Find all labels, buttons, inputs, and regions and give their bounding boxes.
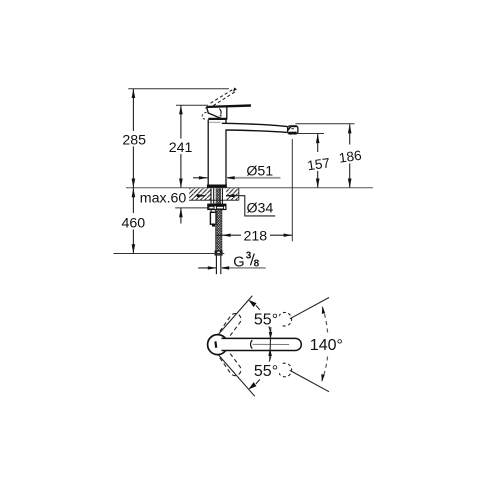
dimension 241 line [180,105,182,188]
solid spout top view [222,338,302,350]
spout centerline [253,343,289,345]
mounting stud and sliding block [210,210,212,213]
140deg tangent line bottom [290,370,329,391]
braided hose upper [216,188,220,204]
cartridge housing [207,107,227,119]
55deg arc arrow bottom [248,382,256,389]
dimension 186 line [349,124,351,188]
svg-text:Ø51: Ø51 [246,164,273,180]
radial extension line -55 [215,350,255,396]
swivel angle arc line through spout [270,327,271,360]
spout [222,123,288,132]
svg-text:G: G [233,254,244,270]
dashed handle alternate position [202,112,207,119]
label 55 bottom [253,362,279,377]
label backgrounds [120,131,363,243]
base circle [208,335,228,355]
186 reference line from spout top [295,123,354,125]
svg-text:55°: 55° [254,312,278,329]
svg-text:157: 157 [306,155,331,173]
dashed spout tip cap bottom [279,363,292,377]
faucet body column [209,121,221,123]
max60 arrow below [180,208,182,224]
dashed handle top position [216,314,241,338]
outlet vertical extension line [291,139,293,241]
raised lever tip [233,88,237,92]
dashed handle bottom position [216,352,241,376]
svg-text:3: 3 [246,250,252,261]
counter right edge [238,188,240,201]
faucet base on deck [207,185,227,188]
counter/deck top line [126,187,373,189]
dimension 157 line [317,134,319,188]
svg-text:218: 218 [243,229,267,245]
braided flexible hose [216,210,222,251]
svg-text:8: 8 [254,259,260,270]
threaded shank through counter [210,188,212,204]
hose end fitting [215,250,223,255]
spout outlet cap [288,126,298,134]
dimension Ø34 [197,195,206,197]
55deg arc arrow top [248,300,256,307]
dimension G3/8 [198,267,216,269]
counter hatch right [226,188,239,200]
max60 lower extension line [175,207,208,209]
lever rest reference line [176,104,208,106]
dashed raised lever [211,89,236,106]
svg-text:max.60: max.60 [140,191,187,207]
140deg tangent line top [290,298,329,319]
svg-text:186: 186 [338,148,363,166]
lever handle [205,104,251,108]
lower reference line (hose end) [114,253,225,255]
connection pipe G3/8 [215,256,217,275]
dimension 285 line [132,89,134,188]
svg-text:Ø34: Ø34 [246,201,273,217]
dimension 218 [216,234,292,236]
counter bottom line [189,199,239,201]
svg-text:55°: 55° [254,363,278,380]
counter hatch left [189,188,211,200]
handle end arc inside spout [251,340,253,348]
top reference line (raised lever height) [128,88,229,90]
svg-text:460: 460 [121,216,145,232]
svg-text:285: 285 [122,132,146,148]
dimension 460 line [132,188,134,254]
radial extension line +55 [215,296,253,339]
label 55 top [253,311,279,326]
dashed spout tip cap top [279,312,292,326]
157 reference line from outlet bottom [297,133,324,135]
140deg arc [322,307,327,333]
svg-text:140°: 140° [310,337,343,354]
dimension Ø51 [193,177,207,179]
mounting nut under counter [208,204,226,209]
svg-text:241: 241 [169,140,193,156]
